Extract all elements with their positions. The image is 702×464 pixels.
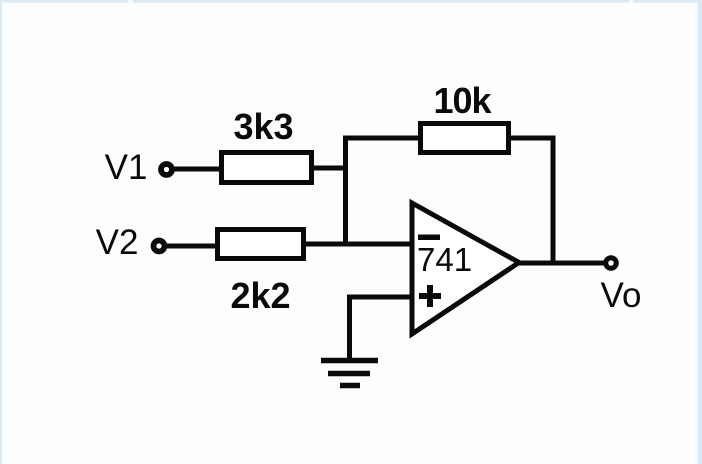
resistor R3 10k <box>421 124 509 153</box>
svg-text:Vo: Vo <box>601 276 642 315</box>
wire non-inverting input to ground <box>350 297 415 360</box>
resistor R1 3k3 <box>222 153 312 183</box>
wire node vertical (junction line) <box>343 136 348 247</box>
op-amp U1 741 <box>412 203 519 334</box>
border frame top <box>0 0 702 3</box>
svg-text:2k2: 2k2 <box>230 275 290 316</box>
border frame left <box>0 0 2 464</box>
wire R1 to node A <box>312 166 348 171</box>
svg-text:V2: V2 <box>96 223 139 262</box>
svg-text:741: 741 <box>417 241 472 278</box>
wire R2 to inverting input <box>302 242 414 247</box>
wire op-amp output <box>517 261 607 266</box>
wire feedback right vertical <box>551 136 556 264</box>
op-amp inverting input minus sign <box>418 235 440 241</box>
svg-text:3k3: 3k3 <box>233 106 293 147</box>
border frame right <box>698 0 702 464</box>
resistor R2 2k2 <box>218 230 304 259</box>
op-amp non-inverting input plus sign <box>419 285 441 307</box>
wire feedback top right <box>507 136 556 141</box>
wire V1 terminal to R1 <box>170 167 222 172</box>
svg-text:10k: 10k <box>433 80 492 121</box>
ground <box>321 361 378 386</box>
terminal Vo <box>606 258 617 269</box>
terminal V2 <box>154 241 165 252</box>
wire V2 terminal to R2 <box>163 244 219 249</box>
wire feedback top left <box>343 136 424 141</box>
svg-text:V1: V1 <box>105 148 148 187</box>
terminal V1 <box>161 164 172 175</box>
